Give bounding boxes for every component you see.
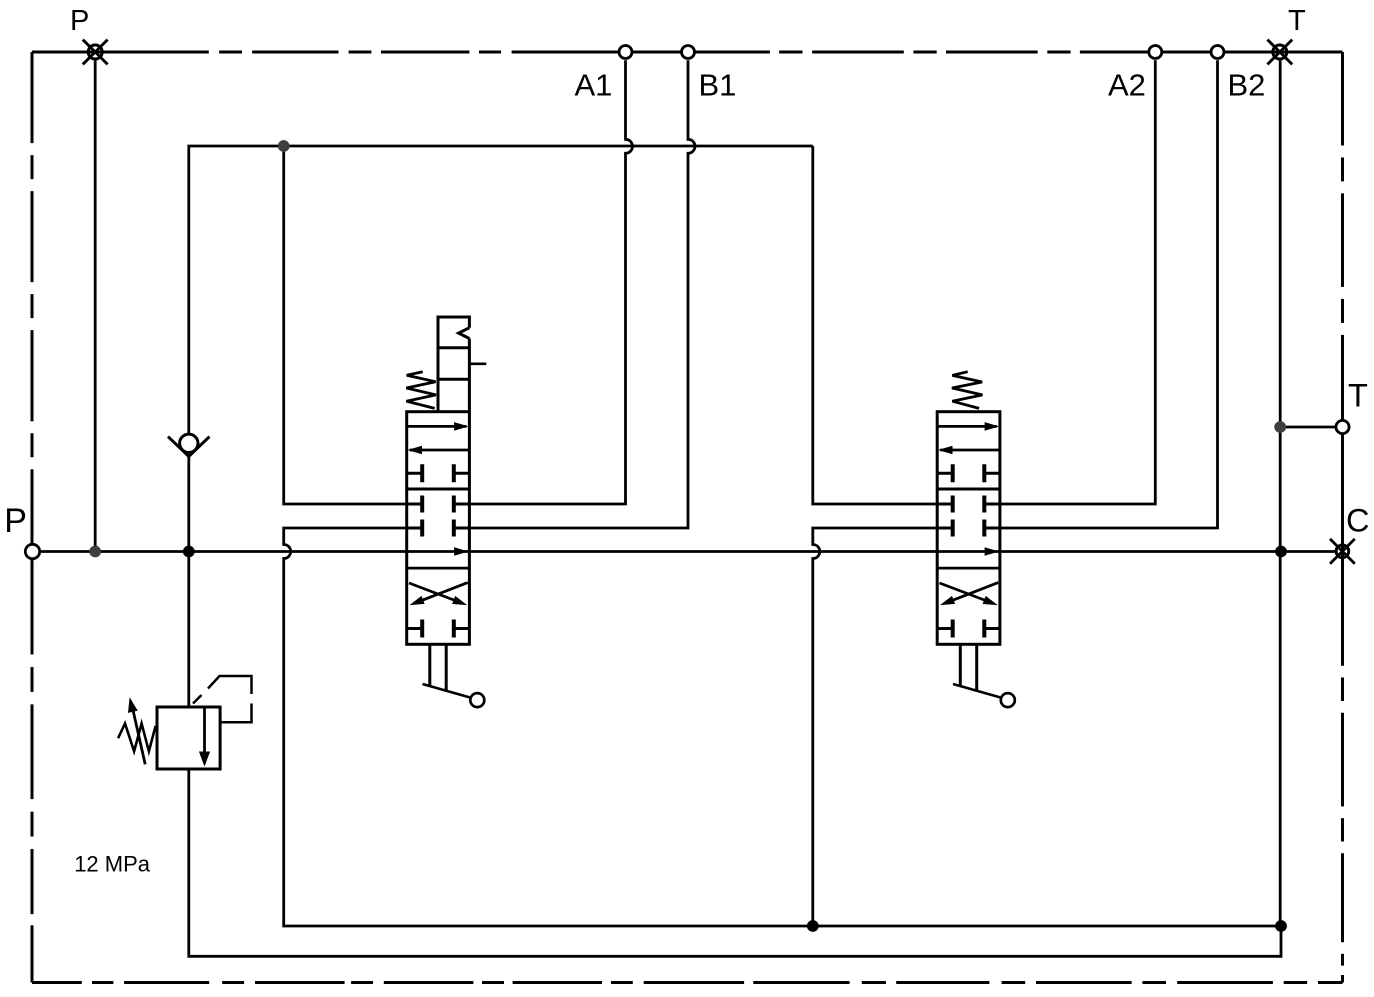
valve V2 actuator stems <box>960 645 976 691</box>
enclosure border bottom <box>32 981 1343 984</box>
wire: valve 1 work port A1 line (with crossover hop) <box>469 60 632 504</box>
svg-text:T: T <box>1348 378 1368 414</box>
enclosure border top (dash-dot valve block boundary) <box>32 51 1343 54</box>
wire: relief valve drain to collector <box>189 769 1281 956</box>
valve V1 pilot/detent stage <box>438 317 486 412</box>
valve V1 position 1 flow arrows <box>408 422 469 431</box>
check valve CV1 <box>168 434 210 456</box>
node: tank line crosses pressure gallery <box>1275 546 1287 558</box>
port P (top, plugged) <box>83 40 108 65</box>
wire: top P port down to main pressure line <box>94 61 97 552</box>
node: regeneration loop tee <box>278 140 290 152</box>
node: valve2 B drop on collector <box>807 920 819 932</box>
valve V2 neutral position blocked ports <box>937 496 1000 537</box>
enclosure border left <box>31 52 34 983</box>
valve V1 neutral position blocked ports <box>407 496 470 537</box>
relief valve RV1 spring <box>118 724 156 752</box>
valve V2 position 1 flow arrows <box>938 422 999 431</box>
valve V2 position 1 blocked ports <box>937 464 1000 482</box>
wire: valve 1 B-port feed / drop to bottom collector <box>284 528 1281 926</box>
wire: valve 2 B-port feed / drop to bottom collector <box>813 528 937 926</box>
port P (left inlet) <box>25 544 39 558</box>
valve V1 position 3 crossed flow arrows <box>409 583 467 605</box>
relief valve RV1 body <box>157 707 220 769</box>
svg-text:T: T <box>1288 5 1306 37</box>
node: check/relief riser on pressure gallery <box>183 546 195 558</box>
svg-text:C: C <box>1346 502 1369 538</box>
valve V1 position 3 blocked ports <box>407 620 470 638</box>
svg-text:A2: A2 <box>1108 68 1146 103</box>
port B1 <box>682 46 695 59</box>
node: tank line on collector <box>1275 920 1287 932</box>
valve V1 neutral open-centre flow arrow <box>454 547 469 556</box>
port T (right outlet) <box>1336 420 1349 433</box>
valve V2 neutral open-centre flow arrow <box>985 547 1000 556</box>
relief valve RV1 flow arrow <box>199 709 210 767</box>
svg-text:A1: A1 <box>575 68 613 103</box>
svg-text:B1: B1 <box>699 68 737 103</box>
svg-text:P: P <box>4 502 27 540</box>
valve V2 position 3 crossed flow arrows <box>940 583 998 605</box>
port B2 <box>1211 46 1224 59</box>
wire: valve 2 work port B2 line <box>1000 60 1218 528</box>
relief valve RV1 adjustment arrow <box>128 697 145 764</box>
wire: drop to valve 2 A-port feed <box>813 146 937 504</box>
port T (top, plugged) <box>1267 40 1292 65</box>
node: top P line joins pressure gallery <box>89 546 101 558</box>
relief valve RV1 pilot line (dashed) <box>193 676 252 722</box>
svg-text:12 MPa: 12 MPa <box>74 851 151 876</box>
svg-text:B2: B2 <box>1228 68 1266 103</box>
valve V2 position 3 blocked ports <box>937 620 1000 638</box>
svg-text:P: P <box>70 5 89 37</box>
wire: main pressure gallery P to C <box>41 550 1335 553</box>
valve V2 return spring <box>952 372 982 409</box>
wire: tank line from top T port down to bottom collector <box>1279 61 1282 927</box>
valve V1 position 1 blocked ports <box>407 464 470 482</box>
enclosure border right <box>1341 52 1344 983</box>
valve V2 hand lever <box>953 684 1015 707</box>
valve V1 return spring <box>406 372 436 409</box>
port C (right, plugged) <box>1330 539 1355 564</box>
valve V1 hand lever <box>423 684 485 707</box>
valve V1 actuator stems <box>430 645 446 691</box>
port A2 <box>1149 46 1162 59</box>
directional valve V2 body <box>937 412 1000 645</box>
node: tank branch tee <box>1274 421 1286 433</box>
port A1 <box>619 46 632 59</box>
wire: valve 2 work port A2 line <box>1000 60 1155 504</box>
directional valve V1 body <box>407 412 470 645</box>
wire: branch to right-side T port <box>1280 426 1335 429</box>
wire: check valve riser / regeneration loop top <box>189 146 813 552</box>
wire: riser to valve 1 A-port feed <box>284 146 407 504</box>
relief valve RV1 supply line <box>187 552 190 708</box>
wire: valve 1 work port B1 line (with crossover hop) <box>469 60 695 528</box>
